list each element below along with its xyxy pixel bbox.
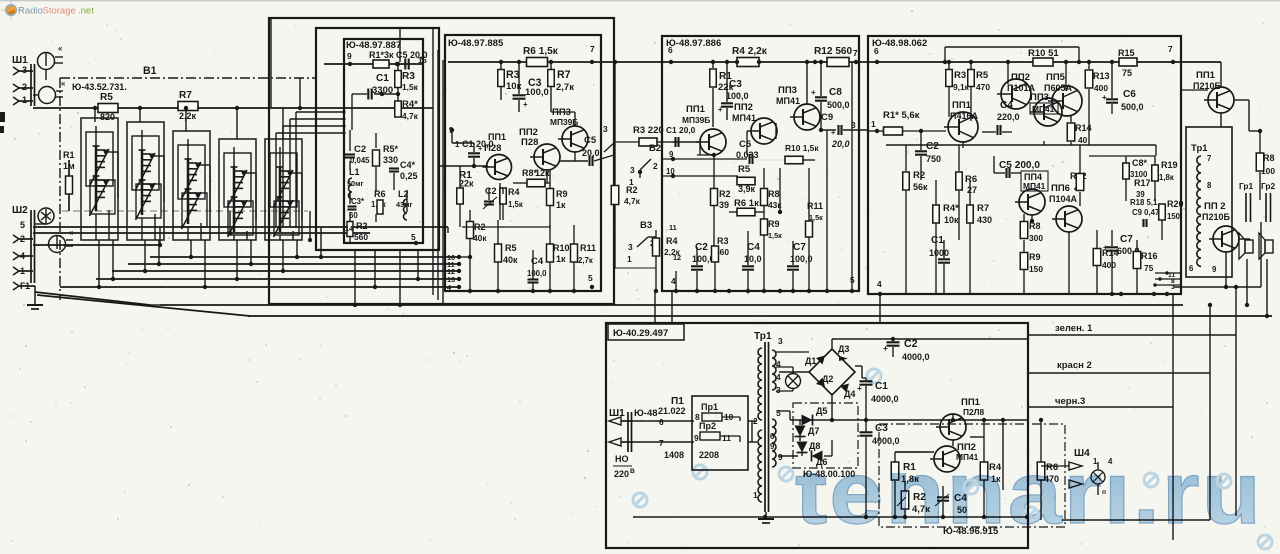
svg-text:11: 11 [669,223,677,232]
svg-text:7: 7 [590,44,595,54]
svg-text:22к: 22к [459,179,474,189]
svg-text:500,0: 500,0 [827,100,850,110]
svg-text:220,0: 220,0 [997,112,1020,122]
svg-text:ПП5: ПП5 [1046,72,1066,83]
svg-text:Ю-48.97.886: Ю-48.97.886 [666,38,721,49]
svg-text:6: 6 [659,417,664,427]
svg-text:.net: .net [78,6,94,17]
svg-text:6: 6 [770,432,775,441]
svg-text:500,0: 500,0 [1121,102,1144,112]
svg-text:ПП1: ПП1 [686,104,706,115]
svg-text:R16: R16 [1141,251,1158,261]
svg-text:Ю-40.29.497: Ю-40.29.497 [613,328,668,339]
svg-text:1к: 1к [556,254,566,264]
svg-text:ПП3: ПП3 [778,85,797,96]
svg-text:черн.3: черн.3 [1055,396,1085,407]
svg-text:1,5к: 1,5к [768,231,782,240]
svg-text:100,0: 100,0 [726,91,749,101]
svg-text:R3 220: R3 220 [633,125,664,136]
svg-text:C7: C7 [793,242,806,253]
svg-text:4000,0: 4000,0 [872,436,900,446]
svg-text:R7: R7 [977,203,989,214]
svg-text:1,5к: 1,5к [508,200,523,209]
svg-text:1,8к: 1,8к [1159,173,1174,182]
svg-text:Д2: Д2 [822,374,833,384]
svg-text:R5: R5 [976,70,989,81]
svg-text:R18 5,1: R18 5,1 [1130,198,1158,207]
svg-text:R2: R2 [356,221,368,231]
svg-text:R4 2,2к: R4 2,2к [732,46,768,57]
svg-text:R1: R1 [903,462,916,473]
svg-text:R6 1,5к: R6 1,5к [523,46,559,57]
svg-text:R5: R5 [100,92,113,103]
svg-text:В: В [630,468,635,475]
svg-text:R4: R4 [989,462,1002,473]
svg-text:C7: C7 [1120,234,1133,245]
svg-text:Пр2: Пр2 [699,421,716,431]
svg-text:+: + [478,144,482,153]
svg-text:7: 7 [1207,154,1211,163]
svg-text:8: 8 [1207,181,1212,190]
svg-text:Ю-48: Ю-48 [634,408,658,419]
svg-text:C3: C3 [875,423,888,434]
svg-text:R20: R20 [1167,199,1184,209]
svg-text:зелен. 1: зелен. 1 [1055,323,1093,334]
svg-text:+: + [857,383,862,393]
svg-text:6: 6 [668,45,673,55]
svg-text:100,0: 100,0 [527,269,547,278]
svg-text:R5*: R5* [383,144,399,154]
svg-text:4: 4 [671,276,676,286]
svg-text:Ю-48.97.885: Ю-48.97.885 [448,38,504,49]
svg-text:14: 14 [345,224,354,233]
svg-text:Гр1: Гр1 [1239,181,1254,191]
svg-text:Д7: Д7 [808,426,819,436]
svg-text:1: 1 [871,119,876,129]
svg-text:11: 11 [722,433,731,443]
svg-text:C5: C5 [739,139,752,150]
svg-text:C2: C2 [354,144,366,155]
svg-text:ПП6: ПП6 [1051,183,1070,194]
svg-text:2: 2 [22,82,27,92]
svg-text:4000,0: 4000,0 [871,394,899,404]
svg-text:12: 12 [673,253,681,262]
svg-text:5: 5 [411,232,416,242]
svg-text:4000,0: 4000,0 [902,352,930,362]
svg-text:R4*: R4* [943,203,959,214]
svg-text:R2: R2 [719,189,731,199]
svg-text:С5: С5 [584,135,597,146]
svg-text:C1: C1 [931,235,944,246]
svg-text:1: 1 [455,140,460,149]
svg-text:2: 2 [753,416,758,426]
svg-text:820: 820 [100,112,115,122]
svg-text:5: 5 [20,220,25,230]
svg-text:R1* 5,6к: R1* 5,6к [883,110,920,121]
svg-text:7: 7 [853,48,858,58]
svg-text:400: 400 [1094,83,1108,93]
svg-text:560: 560 [354,232,368,242]
svg-text:9: 9 [778,452,783,462]
svg-text:Пр1: Пр1 [701,402,718,412]
svg-text:Д6: Д6 [816,457,827,467]
svg-text:Ш4: Ш4 [1074,448,1090,459]
svg-text:ПП2: ПП2 [734,102,753,113]
svg-text:C8: C8 [829,87,842,98]
svg-text:3: 3 [628,242,633,252]
svg-text:150: 150 [1029,264,1043,274]
svg-text:R6: R6 [1046,462,1058,473]
svg-text:R4*: R4* [402,99,418,110]
svg-text:Д1: Д1 [805,356,816,366]
svg-text:750: 750 [926,154,941,164]
svg-text:40к: 40к [503,255,518,265]
svg-text:Storage: Storage [43,6,76,17]
svg-text:R2: R2 [626,185,638,195]
svg-text:R8: R8 [768,189,780,199]
svg-text:C4: C4 [1000,100,1013,111]
svg-text:220: 220 [614,469,629,479]
svg-text:R5: R5 [738,164,751,175]
svg-text:9: 9 [694,433,699,443]
svg-text:Гр2: Гр2 [1261,181,1276,191]
svg-text:2208: 2208 [699,450,719,460]
svg-text:4: 4 [877,279,882,289]
svg-text:R2: R2 [913,170,925,181]
svg-text:1000: 1000 [929,248,949,258]
svg-text:ПП1: ПП1 [1196,70,1216,81]
svg-text:15: 15 [418,56,427,65]
svg-text:1,5к: 1,5к [402,82,419,92]
svg-text:C9: C9 [821,112,833,123]
svg-text:75: 75 [1122,68,1132,78]
svg-text:R9: R9 [1029,252,1041,262]
svg-text:2,7к: 2,7к [556,82,574,93]
svg-text:21.022: 21.022 [658,406,686,416]
svg-text:Д4: Д4 [844,389,855,399]
svg-text:Radio: Radio [18,6,43,17]
svg-text:R3: R3 [506,69,520,81]
svg-text:C8*: C8* [1132,158,1148,168]
svg-text:Д8: Д8 [809,441,820,451]
svg-text:4,7к: 4,7к [624,196,641,206]
svg-text:Тр1: Тр1 [754,331,772,342]
svg-text:5: 5 [588,273,593,283]
svg-text:R1*3к: R1*3к [369,50,394,60]
svg-text:ПП1: ПП1 [952,100,972,111]
svg-text:+: + [811,88,816,97]
svg-text:C2: C2 [904,338,918,350]
svg-text:C4: C4 [747,242,760,253]
svg-text:1: 1 [753,490,758,500]
svg-text:56к: 56к [913,182,928,192]
svg-text:R6 1к: R6 1к [734,198,759,209]
svg-text:10,0: 10,0 [744,254,762,264]
svg-text:6: 6 [874,46,879,56]
svg-text:330: 330 [383,155,398,165]
svg-text:12к: 12к [535,168,550,178]
svg-text:3: 3 [778,336,783,346]
svg-text:400: 400 [1102,260,1116,270]
svg-text:2,2к: 2,2к [179,111,197,121]
svg-text:R15: R15 [1118,48,1135,58]
svg-text:Д3: Д3 [838,344,849,354]
svg-text:В2: В2 [649,143,661,154]
svg-text:R13: R13 [1093,71,1110,81]
svg-text:3,9к: 3,9к [738,184,756,194]
svg-text:П104А: П104А [1049,194,1077,204]
svg-text:R5: R5 [505,243,517,253]
svg-text:3: 3 [630,165,635,175]
svg-text:4,7к: 4,7к [402,111,419,121]
svg-text:C6: C6 [1123,89,1136,100]
svg-text:ПП2: ПП2 [1011,72,1030,83]
svg-text:R1: R1 [63,150,75,160]
svg-text:МП39Б: МП39Б [682,115,710,125]
svg-text:+: + [1102,93,1107,102]
svg-text:R7: R7 [557,69,571,81]
svg-text:C3: C3 [729,79,742,90]
svg-text:1к: 1к [556,200,566,210]
svg-text:R9: R9 [768,219,780,229]
svg-text:4: 4 [776,372,781,382]
svg-text:П28: П28 [521,137,538,148]
svg-text:39: 39 [719,200,729,210]
svg-text:R7: R7 [179,90,192,101]
svg-text:150: 150 [1167,212,1181,221]
svg-text:C2: C2 [926,141,939,152]
svg-text:1: 1 [1093,457,1098,466]
svg-text:Ю-48.98.062: Ю-48.98.062 [872,38,927,49]
svg-text:R6: R6 [965,174,977,185]
svg-text:1: 1 [22,95,27,105]
svg-text:В3: В3 [640,220,652,231]
svg-text:C9 0,47: C9 0,47 [1132,208,1159,217]
svg-text:Д5: Д5 [816,406,827,416]
svg-text:20,0: 20,0 [582,148,600,158]
svg-text:2: 2 [653,161,658,171]
svg-text:C2: C2 [485,186,497,196]
svg-text:R11: R11 [580,243,596,253]
svg-text:R9: R9 [556,189,568,199]
svg-text:1408: 1408 [664,450,684,460]
svg-text:40: 40 [1078,135,1088,145]
svg-text:C4*: C4* [400,160,416,170]
svg-text:С1 20,0: С1 20,0 [666,125,696,135]
svg-text:9: 9 [1212,265,1217,274]
svg-text:Тр1: Тр1 [1191,143,1208,154]
svg-text:R8: R8 [1263,153,1275,163]
svg-text:Ш2: Ш2 [12,205,28,216]
svg-text:20,0: 20,0 [831,139,850,149]
svg-text:R3: R3 [717,236,729,246]
svg-text:«: « [61,79,65,88]
svg-text:Ю-43.52.731.: Ю-43.52.731. [72,82,127,92]
svg-text:R10: R10 [553,243,570,253]
svg-text:27: 27 [967,185,977,195]
svg-text:5: 5 [776,408,781,418]
svg-text:МП41: МП41 [732,113,756,123]
svg-text:R3: R3 [402,71,415,82]
svg-text:9: 9 [770,442,775,451]
svg-text:C1: C1 [376,73,389,84]
svg-text:470: 470 [976,82,990,92]
svg-text:красн 2: красн 2 [1057,360,1092,371]
svg-text:МП41: МП41 [776,96,800,106]
svg-text:C5 200,0: C5 200,0 [999,160,1040,171]
svg-text:R3: R3 [954,70,966,81]
svg-text:4: 4 [1108,457,1113,466]
svg-text:3: 3 [22,65,27,75]
svg-text:Ш1: Ш1 [609,408,625,419]
svg-text:НО: НО [615,454,629,464]
svg-text:6: 6 [1189,264,1194,273]
svg-text:R4: R4 [666,236,678,246]
svg-text:«: « [58,44,62,53]
svg-text:+: + [1103,243,1108,252]
svg-text:100,0: 100,0 [525,87,549,98]
svg-text:75: 75 [1144,263,1154,273]
svg-text:+: + [883,343,888,353]
svg-text:7: 7 [1168,44,1173,54]
svg-text:R12 560: R12 560 [814,46,853,57]
svg-text:0,25: 0,25 [400,171,418,181]
svg-text:C3*: C3* [351,197,365,206]
svg-text:ПП 2: ПП 2 [1204,201,1226,212]
svg-text:3: 3 [776,385,781,395]
svg-text:9: 9 [347,51,352,61]
svg-text:R19: R19 [1161,160,1178,170]
svg-text:10к: 10к [944,215,959,225]
svg-text:2,7к: 2,7к [578,256,593,265]
svg-text:П2Л8: П2Л8 [963,407,985,417]
svg-text:40к: 40к [473,233,487,243]
svg-text:1: 1 [627,254,632,264]
svg-text:+: + [718,105,723,114]
svg-text:300: 300 [1029,233,1043,243]
svg-text:R17: R17 [1134,178,1151,188]
svg-text:R10 1,5к: R10 1,5к [785,143,819,153]
svg-text:3: 3 [603,124,608,134]
svg-text:7: 7 [659,438,664,448]
svg-text:430: 430 [977,215,992,225]
svg-text:R4: R4 [508,187,520,197]
svg-text:R14: R14 [1075,123,1092,133]
svg-text:П210Б: П210Б [1202,212,1230,222]
svg-text:В1: В1 [143,65,157,77]
svg-text:+: + [523,100,528,109]
